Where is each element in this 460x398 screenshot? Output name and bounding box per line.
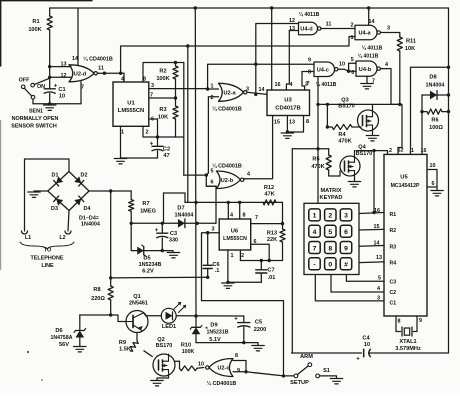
ground Q4 source [354,176,356,181]
svg-text:8: 8 [398,319,401,325]
svg-text:7: 7 [255,215,258,221]
gate U4-d (1/4 4011B) [299,22,318,35]
svg-text:U6: U6 [231,229,238,235]
switch SEN1 normally-open sensor [21,85,25,89]
svg-text:9: 9 [344,245,348,252]
svg-text:470K: 470K [311,164,324,170]
svg-text:14: 14 [259,87,265,93]
wire U5 pin10/pin6 to ground [427,170,437,188]
wire U2-a pin1 input [208,88,219,90]
transistor Q1 2N5461 [126,311,148,333]
wire U3 pin4 to U4-d pin13 [286,31,298,91]
svg-text:R1: R1 [32,19,39,25]
node setup junction [282,374,285,377]
svg-text:5: 5 [351,57,354,63]
svg-text:LED1: LED1 [162,324,176,330]
svg-text:C2: C2 [390,290,397,296]
wire Q1 gate row [80,315,127,322]
svg-text:D6: D6 [55,328,62,334]
svg-text:13: 13 [289,120,295,126]
IC U5 MC145412P [384,154,427,316]
wire U1 pin2/6 bottom loop [143,126,184,137]
wire D8 block top [411,66,449,68]
svg-text:4: 4 [313,229,317,236]
op-amp gate U2-c (1/4 CD4001B) [209,359,233,377]
svg-text:16: 16 [275,82,281,88]
svg-text:1N4004: 1N4004 [175,213,194,219]
bridge rectifier D1-D4 [48,172,89,211]
wire U2-d pin12 input [50,76,71,78]
svg-text:22K: 22K [267,237,277,243]
svg-text:U4-d: U4-d [300,27,313,33]
wire setup row to switch [202,301,284,376]
wire Q3 drain to node row [372,104,374,110]
svg-text:R3: R3 [159,107,166,113]
svg-text:U2-c: U2-c [217,366,229,372]
wire U4-a output to R11 [380,33,399,38]
svg-text:47K: 47K [264,191,274,197]
node rail junctions [194,201,197,204]
wire U6 pin6 link [251,244,270,260]
wire U2-d output to U1 pin4 [98,72,125,74]
wire U6 pin4 stub [227,202,229,219]
svg-text:¼ 4011B: ¼ 4011B [362,45,383,52]
wire R2 loop to U2-b pin5 branch [183,137,185,175]
ground U4-b pin7 [366,76,368,83]
capacitor C7 .01 [260,261,262,270]
svg-text:R12: R12 [264,185,274,191]
svg-text:R7: R7 [142,201,149,207]
svg-text:U1: U1 [127,101,135,107]
svg-text:-: - [313,262,315,269]
wire R13 bottom to pin2/6 row [240,260,282,262]
wire R2 loop right side [183,63,185,138]
svg-text:D2: D2 [81,173,88,179]
svg-text:10K: 10K [158,115,168,121]
wire supply row to C6 [111,276,208,279]
wire U6 pin8 stub [239,202,241,219]
svg-text:2N5461: 2N5461 [129,300,148,306]
wire keypad column 2 to U5 C2 [331,275,384,293]
svg-text:12: 12 [289,18,295,24]
svg-text:12: 12 [61,73,67,79]
svg-text:U2-b: U2-b [221,178,234,184]
svg-text:14: 14 [369,19,375,25]
wire D8/R6 left vertical to U5 pin16 [421,95,423,154]
svg-text:4: 4 [247,172,250,178]
svg-text:10: 10 [430,163,436,169]
svg-text:D5: D5 [143,256,150,262]
svg-text:13: 13 [376,255,382,261]
op-amp gate U2-d (1/4 CD4001B) [69,65,94,82]
resistor R3 [175,98,177,106]
svg-text:R10: R10 [181,342,191,348]
wire U2-b pin6 loop [206,175,216,186]
svg-text:3: 3 [212,227,215,233]
wire keypad feed row [292,148,328,150]
wire D5 to ground [162,251,173,252]
gate U4-a (1/4 4011B) [355,25,377,40]
wire keypad column 1 to U5 C1 [315,275,384,301]
svg-text:8: 8 [328,245,332,252]
wire U2-a pin2 input and drop to U2-b [206,97,218,175]
wire bridge DC out [89,190,131,192]
svg-text:220Ω: 220Ω [91,296,105,302]
svg-text:4: 4 [230,213,233,219]
svg-text:6: 6 [432,181,435,187]
capacitor C2 [157,137,159,146]
svg-text:10: 10 [198,362,204,368]
ground S1 [330,378,343,380]
svg-text:4: 4 [385,62,388,68]
wire U2-d pin14 to V+ rail [77,8,79,65]
svg-text:SETUP: SETUP [290,380,309,386]
wire long drop to bottom wire [291,149,293,353]
diode D7 1N4004 [178,219,185,228]
capacitor C4 10 [362,349,369,357]
svg-text:U2-a: U2-a [223,90,236,96]
wire U4-d output to U4-a pin2 [321,28,355,30]
svg-text:SEN1: SEN1 [29,109,43,115]
switch S1 ARM/SETUP [284,375,294,377]
svg-text:1: 1 [121,130,124,136]
capacitor C3 330 [161,223,163,233]
svg-text:C5: C5 [255,320,262,326]
ground U1 pin1 [114,158,127,160]
svg-text:R5: R5 [312,157,319,163]
svg-text:ON: ON [37,84,45,90]
resistor R7 1MEG [130,191,132,200]
svg-text:4: 4 [121,77,124,83]
svg-text:LM555CN: LM555CN [223,236,247,242]
wire trigger line to U4-a pin1 [121,37,355,74]
wire U5 pin8 to crystal [396,316,401,332]
svg-text:LINE: LINE [41,263,54,269]
svg-text:14: 14 [72,56,78,62]
IC U1 LM555CN [113,82,149,126]
svg-text:LM555CN: LM555CN [118,108,144,114]
svg-text:OFF: OFF [19,78,30,84]
wire U1 pin8 to R2 loop top [143,63,184,83]
wire D7 row up to U2-b branch [206,186,216,223]
wire U3 pin15 to U2-b output [244,116,273,179]
svg-text:9: 9 [237,368,240,374]
svg-text:5: 5 [328,229,332,236]
svg-text:+: + [234,317,238,323]
resistor R5 [328,149,330,155]
svg-text:D3: D3 [51,206,58,212]
svg-text:3: 3 [387,26,390,32]
resistor R12 47K [263,200,276,205]
wire U2-a feedback loop [208,64,256,89]
svg-text:BS170: BS170 [356,151,372,157]
wire U6 pin7 [251,223,283,225]
wire scan edge artifacts [0,0,92,2]
svg-text:+: + [356,357,360,363]
svg-text:TELEPHONE: TELEPHONE [31,255,64,261]
svg-text:C3: C3 [170,231,177,237]
wire U6 pin3 output [202,233,220,301]
svg-text:NORMALLY OPEN: NORMALLY OPEN [12,116,59,122]
wire Q4 drain up [354,151,356,156]
wire dial pulse node row [318,104,402,154]
svg-text:100K: 100K [182,349,195,355]
svg-text:4: 4 [290,82,293,88]
wire trigger drop to V+ row [187,46,189,202]
svg-text:47: 47 [163,153,169,159]
svg-text:D9: D9 [210,323,217,329]
svg-text:¼ CD4001B: ¼ CD4001B [212,106,242,113]
wire D8 block left to U5 pin1 [410,67,412,154]
node pin13 junction [48,65,51,68]
ground D6 [74,346,87,348]
ground U3 pin13 [281,132,294,134]
resistor R6 [422,111,427,113]
zener D5 1N5234B [131,223,134,250]
svg-text:4: 4 [377,286,380,292]
svg-text:13: 13 [289,26,295,32]
svg-text:9: 9 [308,58,311,64]
node pin12 junction [48,76,51,79]
svg-text:MC145412P: MC145412P [391,183,420,189]
gate U4-b (1/4 4011B) [356,61,377,76]
svg-text:Q1: Q1 [133,294,140,300]
svg-text:12: 12 [398,148,404,154]
svg-text:0: 0 [328,262,332,269]
svg-text:9: 9 [419,318,422,324]
svg-text:+: + [54,84,58,90]
wire V+ rail center drop [194,8,197,316]
svg-text:R13: R13 [267,231,277,237]
svg-text:15: 15 [274,120,280,126]
wire C5 ground stub [244,343,258,345]
svg-text:C7: C7 [267,268,274,274]
wire U2-a output up to U4-d pin12 [256,24,299,95]
capacitor C6 .1 [207,233,209,265]
svg-text:100K: 100K [156,76,169,82]
wire U1 pin6 stub [149,119,158,137]
svg-text:1: 1 [411,148,414,154]
ground U6 pin1 [222,282,235,284]
zener D6 1N4758A [79,315,81,331]
transistor Q2 BS170 [153,354,175,376]
svg-text:1N5231B: 1N5231B [207,330,229,336]
svg-text:1: 1 [351,35,354,41]
svg-text:R2: R2 [390,228,397,234]
svg-text:11: 11 [326,22,332,28]
wire gate row to U4-c pin9 [256,63,314,65]
wire U1 pin1 to ground [120,126,122,158]
svg-text:10: 10 [59,94,65,100]
svg-text:C4: C4 [362,336,370,342]
wire U4-c output to U4-b inputs [338,69,348,71]
svg-text:XTAL1: XTAL1 [399,339,416,345]
wire LED1 to C5 top [176,315,244,317]
svg-text:C3: C3 [390,279,397,285]
wire U2-d pin13 input [50,66,71,68]
wire U1 pin7 to R2/R3 [149,97,176,99]
svg-text:7: 7 [313,245,317,252]
wire U2-b output to U3 pin15 [243,179,245,180]
svg-text:R8: R8 [93,287,100,293]
svg-text:¼ 4011B: ¼ 4011B [299,11,320,18]
gate U4-c (1/4 4011B) [314,62,335,77]
wire U3 pin13+8 to ground [286,116,288,133]
capacitor C1 [44,88,55,90]
svg-text:U2-d: U2-d [74,71,87,77]
resistor R9 1.5K [128,340,139,353]
wire U1 pin3 output to U2-a [149,88,208,90]
svg-text:¼ CD4001B: ¼ CD4001B [83,56,113,63]
svg-text:R11: R11 [406,39,416,45]
resistor R8 220 [110,191,112,286]
svg-text:R1: R1 [390,212,397,218]
wire keypad row R1 to U5 [359,213,384,214]
ground U5 pin6 [431,190,444,192]
svg-text:S1: S1 [323,368,330,374]
svg-text:R9: R9 [119,340,126,346]
svg-text:ARM: ARM [300,354,313,360]
svg-text:8: 8 [243,213,246,219]
op-amp gate U2-b (1/4 CD4001B) [216,171,240,189]
svg-text:D1: D1 [52,173,59,179]
svg-text:10: 10 [364,342,370,348]
svg-text:Q2: Q2 [157,337,164,343]
svg-text:1MEG: 1MEG [140,209,156,215]
wire Q1 to LED1 [144,313,147,316]
wire U4-c pin7 / keypad column 1 drop [317,77,319,204]
wire D9 bottom row [196,342,244,344]
svg-text:+: + [150,142,154,148]
svg-text:¼ 4011B: ¼ 4011B [358,53,379,60]
svg-text:10: 10 [339,62,345,68]
svg-text:6: 6 [211,180,214,186]
wire C2 to ground [121,157,158,159]
terminal L2 [65,231,71,234]
wire bridge top to L1 [25,159,70,231]
resistor R11 [397,37,402,51]
svg-text:2: 2 [211,95,214,101]
wire U2-d pin7 down [80,82,82,104]
diode D8 1N4004 [422,94,449,96]
IC U3 CD4017B [267,90,310,116]
svg-text:C1: C1 [390,301,397,307]
wire U3 pin16 to V+ rail [271,8,273,90]
terminal L1 [22,231,28,234]
crystal XTAL1 3.579MHz [401,327,403,336]
svg-text:L1: L1 [25,235,31,241]
node trigger/mid-rail junction [186,44,189,47]
svg-text:¼ 4011B: ¼ 4011B [316,81,337,88]
wire Q4 drain to keypad row R1 [373,151,375,213]
label TO TELEPHONE LINE [20,242,74,249]
resistor R4 [326,104,328,127]
svg-text:U4-a: U4-a [358,31,371,37]
svg-text:C2: C2 [163,147,170,153]
svg-text:.1: .1 [215,268,220,274]
wire keypad row R2 to U5 [359,228,384,231]
wire U3 pin2 to U4-c pin8 [302,72,314,91]
wire U2-c inputs to setup node [246,372,284,376]
svg-text:U5: U5 [400,175,408,181]
svg-text:1: 1 [313,213,317,220]
wire U4-a pin14 to top rail [368,8,370,25]
svg-text:Q4: Q4 [358,145,366,151]
svg-text:1N4004: 1N4004 [426,83,445,89]
svg-text:5: 5 [378,276,381,282]
svg-text:1: 1 [231,253,234,259]
svg-text:1.5K: 1.5K [119,347,131,353]
wire U2-b pin5 row [184,174,207,176]
svg-text:R6: R6 [431,118,438,124]
node junction dots on top rail [194,6,197,9]
svg-text:KEYPAD: KEYPAD [320,195,343,201]
svg-text:3: 3 [344,213,348,220]
svg-text:11: 11 [98,66,104,72]
transistor Q4 BS170 [340,156,360,176]
wire V+ left vertical tail [164,193,186,202]
svg-text:2: 2 [351,23,354,29]
svg-text:BS170: BS170 [338,104,354,110]
svg-text:#: # [344,262,348,269]
resistor R2 [175,63,177,67]
svg-text:8: 8 [235,353,238,359]
ground SEN1 [48,102,51,105]
svg-text:10K: 10K [405,46,415,52]
svg-text:3: 3 [246,87,249,93]
svg-text:U3: U3 [284,98,292,104]
svg-text:7: 7 [307,81,310,87]
ground D5/C3 [167,252,180,254]
svg-text:R3: R3 [390,244,397,250]
wire D7 row [131,222,216,224]
svg-text:R4: R4 [390,261,397,267]
svg-text:2: 2 [241,253,244,259]
wire R10 to U2-c output [197,367,204,370]
svg-text:D8: D8 [429,75,436,81]
svg-text:1N4758A: 1N4758A [51,335,73,341]
ground Q2 source [157,376,169,381]
wire U2-c input tie 8-9 [233,361,246,372]
svg-text:13: 13 [61,62,67,68]
wire S1 to ground [320,376,337,378]
svg-text:3.579MHz: 3.579MHz [395,346,421,352]
zener D9 1N5231B [195,316,197,327]
wire keypad column 3 to U5 C3 [346,275,384,282]
svg-text:1N4004: 1N4004 [81,222,100,228]
wire U6 V+ row [185,201,283,203]
resistor R10 100K [175,360,180,362]
svg-text:R4: R4 [338,132,346,138]
svg-text:D4: D4 [84,206,91,212]
svg-text:R2: R2 [159,69,166,75]
svg-text:¼ CD4001B: ¼ CD4001B [212,163,242,170]
IC U6 LM555CN [219,219,251,250]
svg-text:C1: C1 [58,87,65,93]
ground C5 [252,345,265,347]
wire R9 to Q2 gate [144,351,152,357]
svg-text:BS170: BS170 [156,343,172,349]
wire C7 to pin1 ground [228,281,261,283]
svg-text:1N5234B: 1N5234B [139,262,162,268]
wire U6 pin2 stub [239,250,241,261]
svg-text:2: 2 [146,130,149,136]
svg-text:8: 8 [308,70,311,76]
svg-text:CD4017B: CD4017B [275,106,300,112]
svg-text:8: 8 [306,119,309,125]
wire sensor to U2-d pin7 [33,103,81,105]
svg-text:2: 2 [389,148,392,154]
